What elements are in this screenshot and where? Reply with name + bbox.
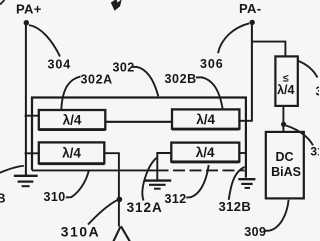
node junction feed [281,122,286,127]
block 302 bottom edge solid [32,169,157,171]
leader 310 [66,170,89,198]
leader 306 [218,23,249,53]
leader 302B [196,77,223,109]
wire lead to line 302A [25,115,39,117]
leader left B [0,166,24,174]
svg-text:λ/4: λ/4 [196,112,215,127]
svg-text:312A: 312A [127,200,163,215]
transmission line 302A (lambda/4 box) [39,110,106,130]
svg-text:BiAS: BiAS [271,165,301,179]
leader 312 [186,165,208,198]
svg-text:λ/4: λ/4 [62,146,81,161]
svg-text:310A: 310A [61,225,100,240]
svg-text:302: 302 [113,61,135,75]
leader 312A [142,158,157,201]
wire PA+ vertical to ground [25,23,27,176]
wire feed box to DC bias [282,106,284,132]
leader 304 [29,25,60,57]
feed line 314 (lambda/4 or less box) [275,56,297,106]
leader 302 [132,67,158,97]
wire PA- branch to lambda/4 feed [252,42,286,57]
wire 302B right lead [239,120,252,122]
value lambda/4-or-less of feed [277,73,294,97]
svg-text:302A: 302A [81,73,113,87]
leader 302A [61,77,80,110]
corner tick [0,0,5,5]
svg-text:λ/4: λ/4 [196,145,215,160]
block 302 outline [32,98,246,178]
stub 312 (lambda/4 box) [171,143,239,163]
wire stub 310 right lead and node 310A down to output [104,153,119,226]
arrow output port [113,226,130,241]
leader right top [298,61,318,78]
value DC BIAS [271,150,301,179]
stub 310 (lambda/4 box) [39,142,105,164]
svg-text:302B: 302B [165,72,197,86]
ground 308A [14,176,38,186]
svg-text:304: 304 [48,57,72,71]
transmission line 302B (lambda/4 box) [172,109,239,129]
svg-text:DC: DC [275,150,293,164]
block 302 bottom edge dashed [157,169,245,171]
leader 309 [265,200,289,231]
ground right [238,179,255,188]
wire PA- vertical [251,22,253,120]
node PA+ [24,20,29,25]
svg-text:31: 31 [310,144,319,158]
svg-text:310: 310 [44,190,66,204]
svg-text:3: 3 [316,85,320,99]
svg-text:312: 312 [165,192,187,206]
DC bias source 309 [266,132,304,199]
svg-text:PA+: PA+ [16,2,42,17]
wire stub 312 left lead to ground [157,153,171,180]
leader 310A [88,200,117,224]
svg-text:312B: 312B [219,199,252,214]
leader right middle [286,126,313,146]
figure reference arrow (cropped, pointing down-left) [111,0,122,11]
svg-text:λ/4: λ/4 [63,112,82,127]
wire between 302A and 302B [105,121,172,123]
svg-text:309: 309 [244,225,266,239]
leader 312B [229,167,245,200]
svg-text:306: 306 [200,57,224,71]
wire stub 312 right lead [239,152,246,154]
svg-text:λ/4: λ/4 [277,83,294,97]
node 310A junction dot [117,197,123,203]
node PA- [250,20,255,25]
svg-text:PA-: PA- [239,1,261,16]
ground 308B (center) [144,181,171,189]
svg-text:B: B [0,192,6,206]
wire lead to stub 310 [25,152,39,154]
